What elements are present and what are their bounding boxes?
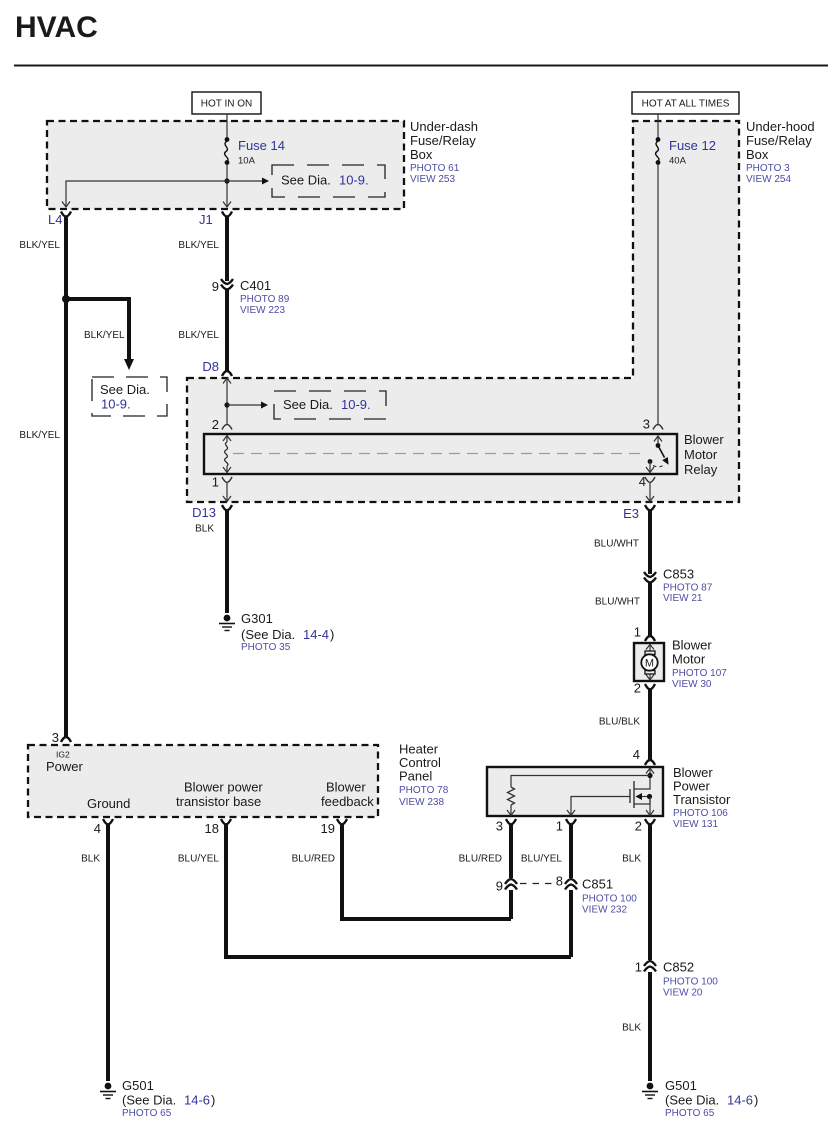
wire heater pin 18 to C851 pin 8 (226, 825, 571, 958)
terminal pin 2 (222, 425, 232, 430)
svg-text:14-6: 14-6 (727, 1093, 753, 1108)
terminal D8 (222, 371, 232, 376)
svg-text:VIEW 131: VIEW 131 (673, 819, 718, 830)
svg-text:IG2: IG2 (56, 750, 70, 760)
svg-text:PHOTO 61: PHOTO 61 (410, 163, 460, 174)
svg-text:10-9.: 10-9. (339, 173, 369, 188)
svg-text:4: 4 (633, 747, 640, 762)
svg-text:2: 2 (634, 681, 641, 696)
svg-text:Motor: Motor (672, 652, 706, 667)
svg-text:10-9.: 10-9. (341, 397, 371, 412)
See Dia. 10-9. box (in under-dash box) (272, 165, 385, 197)
terminal transistor pin 4 (645, 760, 655, 765)
wire fuse 12 to relay pin 3 (657, 164, 659, 425)
svg-text:BLK/YEL: BLK/YEL (19, 430, 60, 441)
svg-text:Fuse/Relay: Fuse/Relay (746, 133, 812, 148)
svg-text:Fuse/Relay: Fuse/Relay (410, 133, 476, 148)
wire branch to See Dia arrow (66, 299, 129, 360)
wire gate to pin 1 (571, 797, 630, 816)
wire heater pin 19 to C851 pin 9 (342, 825, 511, 920)
svg-text:Fuse 14: Fuse 14 (238, 138, 285, 153)
svg-text:Motor: Motor (684, 447, 718, 462)
svg-text:2: 2 (635, 819, 642, 834)
svg-text:See Dia.: See Dia. (281, 173, 331, 188)
See Dia. 10-9. box (in relay box) (274, 391, 386, 419)
svg-text:(See Dia.: (See Dia. (665, 1093, 719, 1108)
svg-text:19: 19 (321, 821, 335, 836)
wire L4 BLK/YEL (64, 216, 68, 738)
label G501 right (665, 1078, 758, 1119)
svg-text:1: 1 (556, 819, 563, 834)
ground G301 (219, 615, 235, 631)
svg-text:Blower: Blower (326, 780, 366, 795)
label HOT IN ON (192, 92, 261, 114)
label HOT AT ALL TIMES (632, 92, 739, 114)
exit arrow L4 (62, 202, 70, 208)
svg-text:Blower: Blower (672, 638, 712, 653)
svg-text:PHOTO 87: PHOTO 87 (663, 583, 713, 594)
connector C852 (635, 960, 719, 999)
svg-text:M: M (645, 658, 654, 670)
svg-text:BLK: BLK (195, 524, 214, 535)
svg-text:Under-hood: Under-hood (746, 119, 815, 134)
svg-text:C853: C853 (663, 567, 694, 582)
svg-text:Transistor: Transistor (673, 792, 731, 807)
wire arrow to See Dia box (227, 404, 261, 406)
wire pin1 to D13 exit (226, 483, 228, 502)
wire from HOT AT ALL TIMES to fuse 12 (657, 114, 659, 139)
heater control panel box (28, 745, 378, 817)
terminal D13 (222, 505, 232, 511)
svg-text:PHOTO 100: PHOTO 100 (582, 894, 637, 905)
svg-text:PHOTO 3: PHOTO 3 (746, 163, 790, 174)
svg-text:3: 3 (496, 819, 503, 834)
relay coil (223, 436, 231, 473)
terminal motor pin 1 (645, 636, 655, 641)
See Dia. 10-9. box (left) (92, 377, 167, 416)
label C851 (582, 877, 637, 916)
svg-text:VIEW 238: VIEW 238 (399, 797, 444, 808)
svg-text:1: 1 (212, 475, 219, 490)
svg-text:4: 4 (94, 821, 101, 836)
label Blower Motor Relay (684, 432, 724, 477)
svg-text:C401: C401 (240, 278, 271, 293)
svg-text:Under-dash: Under-dash (410, 119, 478, 134)
svg-text:HOT AT ALL TIMES: HOT AT ALL TIMES (642, 99, 730, 110)
svg-text:(See Dia.: (See Dia. (122, 1093, 176, 1108)
terminal transistor pin 1 (566, 819, 576, 825)
svg-text:BLU/RED: BLU/RED (292, 854, 335, 865)
svg-text:3: 3 (52, 730, 59, 745)
wire branch to L4 (66, 181, 227, 206)
svg-text:PHOTO 89: PHOTO 89 (240, 294, 290, 305)
svg-text:Box: Box (746, 147, 769, 162)
svg-text:BLU/YEL: BLU/YEL (521, 854, 563, 865)
wire from HOT IN ON to fuse 14 (226, 114, 228, 139)
terminal E3 (645, 505, 655, 511)
svg-text:VIEW 21: VIEW 21 (663, 593, 703, 604)
label Under-hood Fuse/Relay Box (746, 119, 815, 185)
svg-text:PHOTO 107: PHOTO 107 (672, 668, 727, 679)
svg-text:Panel: Panel (399, 769, 432, 784)
terminal L4 (61, 212, 71, 217)
wire resistor to pin 3 (510, 805, 512, 815)
svg-text:transistor base: transistor base (176, 794, 261, 809)
terminal transistor pin 3 (506, 819, 516, 825)
svg-text:D8: D8 (202, 359, 219, 374)
label IG2 Power (46, 750, 84, 775)
wire C401 to D8 (225, 290, 229, 371)
wire transistor pin 3 down (509, 825, 513, 879)
svg-text:2: 2 (212, 417, 219, 432)
svg-text:14-4: 14-4 (303, 627, 329, 642)
svg-text:VIEW 232: VIEW 232 (582, 905, 627, 916)
svg-text:BLU/RED: BLU/RED (459, 854, 502, 865)
label G501 left (122, 1078, 215, 1119)
wire motor to transistor pin 4 (648, 690, 652, 761)
wire fuse 14 to J1 exit (226, 164, 228, 206)
label Heater Control Panel (399, 742, 449, 809)
svg-text:3: 3 (643, 417, 650, 432)
terminal pin 3 (653, 425, 663, 430)
svg-text:See Dia.: See Dia. (100, 382, 150, 397)
svg-text:PHOTO 65: PHOTO 65 (665, 1108, 715, 1119)
fuse F12 (656, 137, 716, 166)
terminal motor pin 2 (645, 684, 655, 690)
label Under-dash Fuse/Relay Box (410, 119, 478, 185)
svg-text:HVAC: HVAC (15, 11, 98, 44)
relay switch (648, 436, 669, 467)
svg-text:BLK: BLK (622, 854, 641, 865)
fuse F14 (225, 137, 285, 166)
svg-text:4: 4 (639, 474, 646, 489)
svg-text:VIEW 20: VIEW 20 (663, 988, 703, 999)
svg-text:Fuse 12: Fuse 12 (669, 138, 716, 153)
connector C853 (644, 567, 713, 605)
svg-text:9: 9 (496, 879, 503, 894)
svg-text:BLK/YEL: BLK/YEL (19, 240, 60, 251)
junction dot drain (647, 773, 652, 778)
svg-text:Relay: Relay (684, 462, 718, 477)
svg-text:BLU/WHT: BLU/WHT (594, 539, 639, 550)
terminal heater pin 19 (337, 819, 347, 825)
svg-text:18: 18 (205, 821, 219, 836)
svg-text:10-9.: 10-9. (101, 397, 131, 412)
svg-text:): ) (330, 627, 334, 642)
svg-text:PHOTO 78: PHOTO 78 (399, 785, 449, 796)
svg-text:C851: C851 (582, 877, 613, 892)
svg-text:14-6: 14-6 (184, 1093, 210, 1108)
svg-text:9: 9 (212, 279, 219, 294)
wire heater pin 4 to G501 (106, 825, 110, 1082)
blower motor M1 (634, 643, 664, 681)
wire pin4 contact to exit (649, 461, 651, 473)
junction on L4 wire (62, 295, 70, 303)
svg-text:G301: G301 (241, 611, 273, 626)
wire E3 to C853 (648, 511, 652, 575)
wire arrow to See Dia box (227, 180, 262, 182)
svg-text:1: 1 (635, 960, 642, 975)
junction dot under fuse 14 (224, 178, 229, 183)
wire D13 to G301 (225, 511, 229, 614)
svg-text:BLK: BLK (81, 854, 100, 865)
svg-text:L4: L4 (48, 212, 62, 227)
blower power transistor box (487, 767, 663, 816)
svg-text:BLK: BLK (622, 1023, 641, 1034)
header rule (14, 65, 828, 67)
wire pin4 to E3 exit (649, 483, 651, 502)
svg-text:VIEW 223: VIEW 223 (240, 305, 285, 316)
svg-text:Power: Power (46, 759, 84, 774)
svg-text:BLU/YEL: BLU/YEL (178, 854, 220, 865)
svg-text:BLK/YEL: BLK/YEL (84, 330, 125, 341)
under-hood fuse/relay box merged with relay dashed box (187, 121, 739, 502)
terminal pin 4 (645, 477, 655, 483)
MOSFET Q1 (630, 778, 654, 816)
wire transistor pin 2 down (648, 825, 652, 961)
blower motor relay body (204, 434, 677, 474)
svg-text:PHOTO 106: PHOTO 106 (673, 808, 728, 819)
svg-text:feedback: feedback (321, 794, 374, 809)
exit arrow J1 (223, 202, 231, 208)
svg-text:E3: E3 (623, 506, 639, 521)
svg-text:BLU/BLK: BLU/BLK (599, 717, 640, 728)
svg-text:G501: G501 (665, 1078, 697, 1093)
label Blower Motor (672, 638, 727, 691)
svg-text:VIEW 253: VIEW 253 (410, 174, 455, 185)
wire drain to resistor (511, 776, 650, 788)
svg-text:BLK/YEL: BLK/YEL (178, 330, 219, 341)
ground G501 right (642, 1083, 658, 1099)
svg-text:C852: C852 (663, 960, 694, 975)
svg-text:1: 1 (634, 625, 641, 640)
wire C853 to blower motor (648, 583, 652, 636)
wire pin4 into box (649, 768, 651, 775)
connector C851 pin 9 (496, 879, 517, 894)
wire D8 into relay box (226, 378, 228, 425)
connector C851 pin 8 (556, 874, 577, 890)
svg-text:Ground: Ground (87, 796, 130, 811)
label Blower Power Transistor (673, 765, 731, 830)
wire C851 pin9 to corner (509, 890, 513, 919)
label Blower power transistor base (176, 780, 263, 810)
svg-text:PHOTO 35: PHOTO 35 (241, 642, 291, 653)
wire J1 to C401 (225, 216, 229, 281)
svg-text:10A: 10A (238, 156, 256, 167)
terminal heater pin 18 (221, 819, 231, 825)
relay mechanical link (233, 453, 645, 455)
svg-text:G501: G501 (122, 1078, 154, 1093)
svg-text:VIEW 30: VIEW 30 (672, 679, 712, 690)
svg-text:J1: J1 (199, 212, 213, 227)
svg-text:D13: D13 (192, 505, 216, 520)
resistor R1 (508, 787, 515, 805)
ground G501 left (100, 1083, 116, 1099)
under-dash fuse/relay box (47, 121, 404, 209)
wire C852 to G501 right (648, 972, 652, 1081)
svg-text:VIEW 254: VIEW 254 (746, 174, 791, 185)
wire C851 pin8 to corner (569, 890, 573, 957)
svg-text:Blower: Blower (684, 432, 724, 447)
svg-text:Blower power: Blower power (184, 780, 263, 795)
svg-text:HOT IN ON: HOT IN ON (201, 99, 252, 110)
junction dot (224, 402, 229, 407)
connector C401 (212, 278, 290, 316)
svg-text:Box: Box (410, 147, 433, 162)
terminal heater pin 3 (61, 737, 71, 742)
svg-text:(See Dia.: (See Dia. (241, 627, 295, 642)
terminal pin 1 (222, 477, 232, 483)
svg-text:BLU/WHT: BLU/WHT (595, 597, 640, 608)
svg-text:): ) (754, 1093, 758, 1108)
terminal heater pin 4 (103, 819, 113, 825)
svg-text:40A: 40A (669, 156, 687, 167)
svg-text:): ) (211, 1093, 215, 1108)
terminal J1 (222, 212, 232, 217)
label Blower feedback (321, 780, 374, 810)
dashed tie C851 (520, 883, 553, 885)
wire transistor pin 1 down (569, 825, 573, 879)
svg-text:BLK/YEL: BLK/YEL (178, 240, 219, 251)
label G301 (241, 611, 334, 653)
svg-text:8: 8 (556, 874, 563, 889)
svg-text:See Dia.: See Dia. (283, 397, 333, 412)
svg-text:PHOTO 100: PHOTO 100 (663, 977, 718, 988)
svg-text:PHOTO 65: PHOTO 65 (122, 1108, 172, 1119)
terminal transistor pin 2 (645, 819, 655, 825)
